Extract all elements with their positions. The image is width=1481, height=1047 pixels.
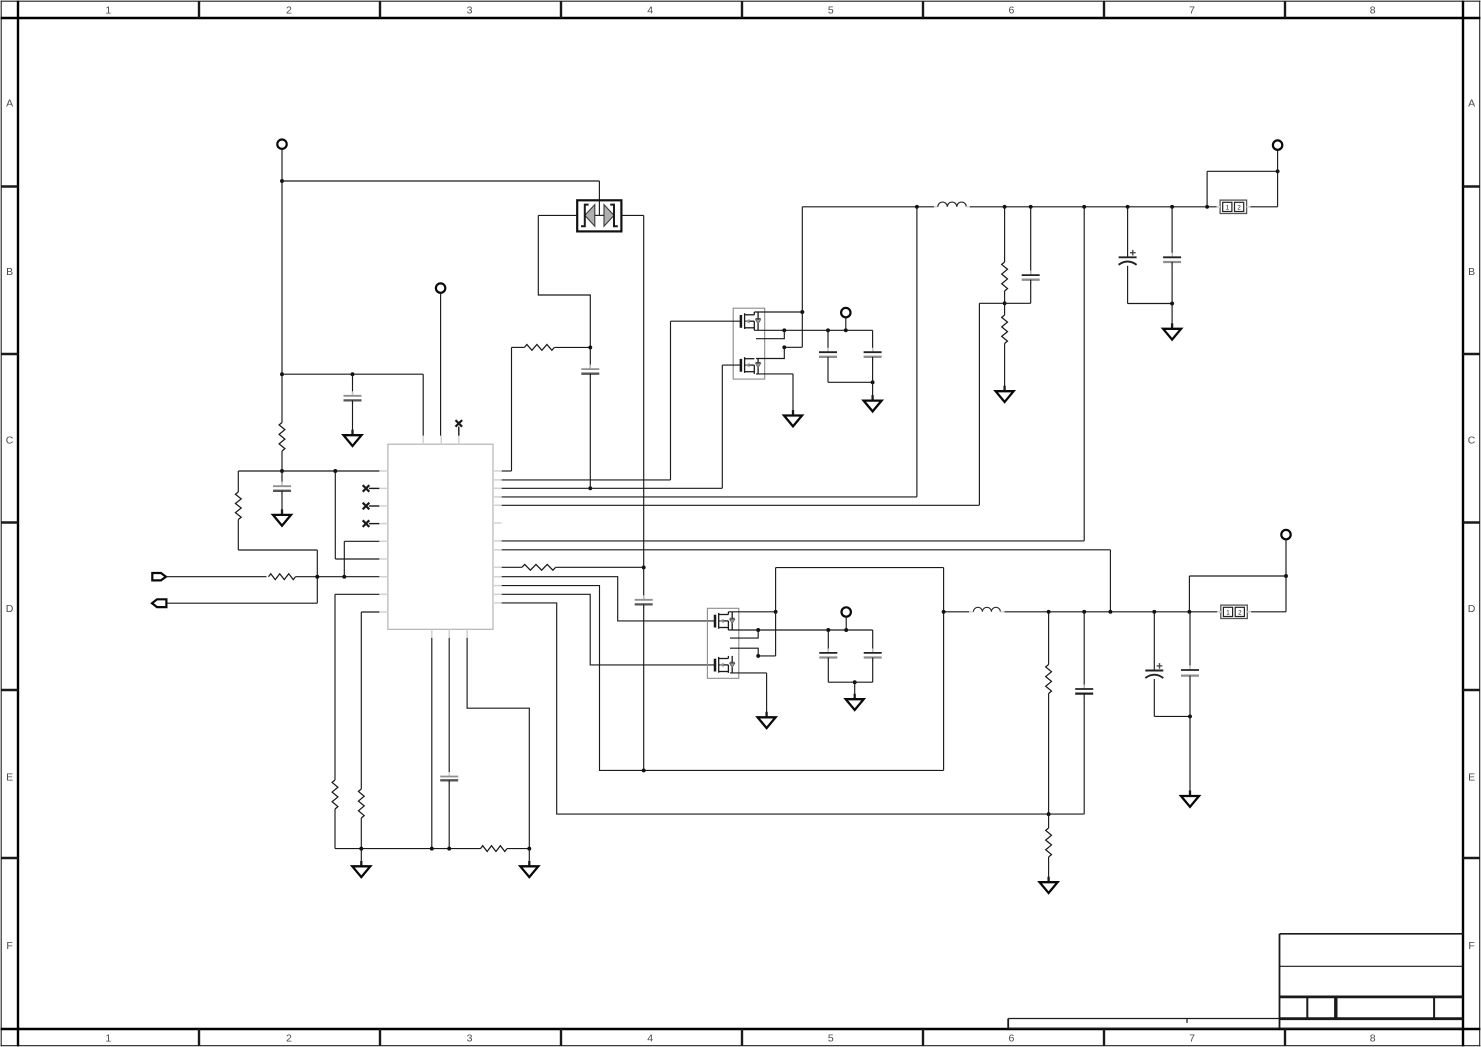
svg-text:1: 1: [105, 1033, 111, 1045]
svg-text:8: 8: [1370, 5, 1376, 17]
svg-text:B: B: [1468, 266, 1475, 278]
svg-text:F: F: [1468, 940, 1474, 952]
svg-text:7: 7: [1189, 1033, 1195, 1045]
svg-text:2: 2: [286, 1033, 292, 1045]
svg-text:D: D: [6, 603, 14, 615]
svg-text:C: C: [1468, 434, 1476, 446]
svg-text:1: 1: [1226, 609, 1230, 616]
svg-text:6: 6: [1008, 1033, 1014, 1045]
svg-text:A: A: [1468, 97, 1475, 109]
svg-text:2: 2: [1237, 204, 1241, 211]
svg-text:A: A: [6, 97, 13, 109]
svg-text:3: 3: [467, 1033, 473, 1045]
svg-text:1: 1: [105, 5, 111, 17]
svg-text:2: 2: [286, 5, 292, 17]
svg-text:4: 4: [647, 5, 653, 17]
svg-text:4: 4: [647, 1033, 653, 1045]
svg-text:2: 2: [1238, 609, 1242, 616]
svg-text:5: 5: [828, 5, 834, 17]
svg-text:5: 5: [828, 1033, 834, 1045]
svg-text:3: 3: [467, 5, 473, 17]
svg-text:1: 1: [1226, 204, 1230, 211]
svg-text:F: F: [6, 940, 12, 952]
svg-text:C: C: [6, 434, 14, 446]
svg-text:6: 6: [1008, 5, 1014, 17]
svg-text:E: E: [6, 771, 13, 783]
svg-text:7: 7: [1189, 5, 1195, 17]
svg-text:D: D: [1468, 603, 1476, 615]
svg-text:E: E: [1468, 771, 1475, 783]
svg-text:B: B: [6, 266, 13, 278]
svg-text:8: 8: [1370, 1033, 1376, 1045]
